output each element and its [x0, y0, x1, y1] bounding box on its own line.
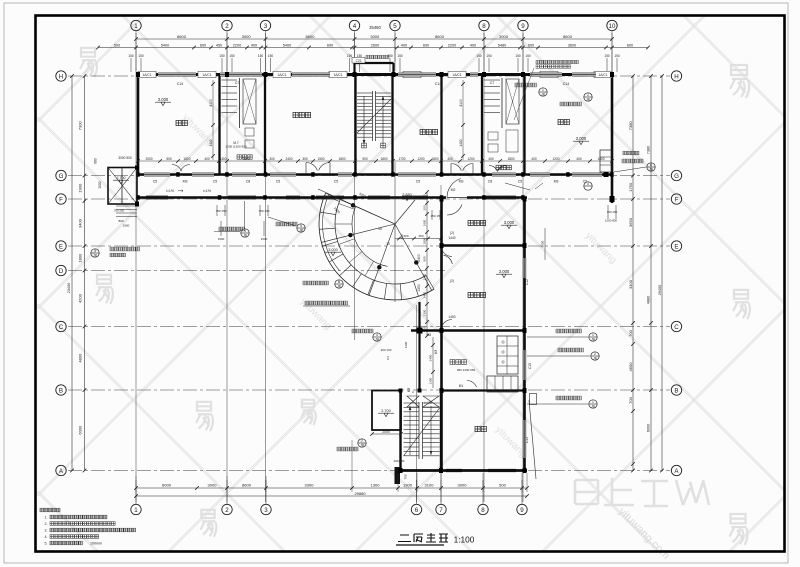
svg-text:4.: 4.: [45, 535, 48, 539]
svg-text:150: 150: [219, 54, 225, 58]
svg-text:J8: J8: [93, 253, 97, 257]
svg-text:H: H: [674, 73, 678, 80]
svg-text:3.000: 3.000: [576, 136, 587, 141]
svg-text:1200 (1200 900: 1200 (1200 900: [225, 145, 246, 149]
svg-text:400: 400: [447, 157, 453, 161]
svg-text:23400: 23400: [67, 283, 71, 294]
svg-text:M2: M2: [451, 188, 456, 192]
svg-text:1: 1: [592, 400, 594, 404]
svg-text:1800: 1800: [380, 157, 387, 161]
svg-text:3.000: 3.000: [328, 248, 338, 252]
svg-text:4200: 4200: [77, 293, 82, 303]
svg-text:1300: 1300: [429, 377, 433, 384]
spiral spokes and dots: [326, 193, 395, 224]
svg-text:150: 150: [515, 54, 521, 58]
windows top wall: [158, 73, 196, 76]
door M2: [447, 179, 461, 198]
axis circles right: [671, 71, 681, 81]
svg-text:29400: 29400: [658, 285, 662, 296]
svg-text:400: 400: [204, 157, 210, 161]
svg-text:1300: 1300: [423, 309, 427, 316]
door M2 top office: [447, 205, 462, 216]
svg-text:2400: 2400: [423, 291, 427, 298]
dim marks right of office: [544, 228, 546, 260]
svg-text:2200: 2200: [233, 43, 241, 47]
svg-text:150: 150: [229, 54, 235, 58]
svg-text:30: 30: [386, 242, 390, 246]
svg-text:2: 2: [587, 93, 589, 97]
svg-text:1440: 1440: [448, 236, 455, 240]
svg-text:1200: 1200: [552, 157, 559, 161]
wall F (corridor south): [137, 196, 446, 199]
svg-text:1400: 1400: [459, 139, 463, 146]
svg-text:1450: 1450: [448, 315, 455, 319]
right side callouts: [589, 333, 597, 341]
svg-text:7300: 7300: [77, 121, 82, 131]
spiral treads: [426, 275, 434, 289]
svg-text:700: 700: [628, 329, 633, 336]
svg-text:29880: 29880: [354, 491, 366, 496]
top stair: [357, 92, 373, 94]
dim chain in stair hall: [426, 192, 428, 336]
room 2 bedroom: [558, 119, 563, 124]
svg-text:3000: 3000: [458, 483, 468, 488]
svg-text:1000: 1000: [123, 224, 130, 228]
svg-text:1200: 1200: [404, 341, 408, 348]
svg-text:2000: 2000: [145, 157, 152, 161]
svg-text:600: 600: [403, 234, 408, 238]
svg-text:8600: 8600: [563, 34, 573, 39]
svg-text:1300: 1300: [371, 483, 381, 488]
svg-text:1A/C1: 1A/C1: [598, 73, 607, 77]
svg-text:8: 8: [482, 23, 486, 30]
double door X marks in corridor: [407, 396, 419, 407]
svg-text:1500: 1500: [218, 237, 225, 241]
svg-text:1200: 1200: [467, 157, 474, 161]
svg-text:3000: 3000: [499, 34, 509, 39]
svg-text:1900: 1900: [77, 183, 82, 193]
svg-text:M3: M3: [407, 388, 411, 393]
landing 2.700 box: [372, 391, 401, 431]
svg-text:1200: 1200: [417, 157, 424, 161]
interior dim row above wall G: [138, 160, 612, 162]
svg-text:4: 4: [587, 182, 589, 186]
vertical stub dims at 2,3 below F: [220, 221, 222, 236]
svg-text:C14: C14: [563, 82, 570, 86]
svg-text:5400: 5400: [161, 43, 169, 47]
svg-text:2000: 2000: [382, 430, 390, 434]
svg-text:9: 9: [520, 507, 524, 514]
svg-text:1A/C1: 1A/C1: [142, 73, 151, 77]
canopy callouts: [244, 201, 246, 229]
svg-text:900: 900: [362, 157, 368, 161]
hall mini dim chain: [395, 238, 441, 240]
svg-text:200x260: 200x260: [394, 459, 405, 463]
svg-text:1800: 1800: [507, 157, 514, 161]
upper wing exterior walls: [138, 73, 612, 76]
svg-text:3000 500: 3000 500: [118, 156, 132, 160]
axis row lines: [68, 75, 670, 77]
svg-text:7380: 7380: [647, 146, 651, 154]
svg-text:C15: C15: [528, 363, 532, 369]
svg-text:300: 300: [269, 157, 275, 161]
svg-text:3100: 3100: [425, 483, 435, 488]
svg-text:3000: 3000: [208, 483, 218, 488]
bottom stair: [404, 402, 420, 404]
svg-text:600: 600: [423, 43, 429, 47]
svg-text:1:100: 1:100: [454, 535, 475, 545]
svg-text:450: 450: [216, 43, 222, 47]
shower stalls: [497, 336, 518, 374]
svg-text:C7: C7: [235, 81, 240, 85]
left dimension chains: [84, 76, 86, 471]
svg-text:400: 400: [488, 157, 494, 161]
svg-text:M3: M3: [554, 180, 559, 184]
svg-text:9: 9: [521, 23, 525, 30]
svg-text:7: 7: [361, 439, 363, 443]
svg-text:i=1%: i=1%: [424, 401, 431, 405]
svg-text:4600: 4600: [628, 362, 633, 372]
svg-text:C7: C7: [490, 81, 495, 85]
svg-text:2.: 2.: [45, 522, 48, 526]
svg-text:1200: 1200: [423, 273, 427, 280]
svg-text:C12: C12: [525, 279, 529, 285]
svg-text:45: 45: [378, 227, 382, 231]
svg-text:1800: 1800: [597, 157, 604, 161]
svg-text:150: 150: [614, 54, 620, 58]
svg-text:C5: C5: [153, 180, 158, 184]
svg-text:750 150: 750 150: [216, 209, 227, 213]
svg-text:8: 8: [481, 507, 485, 514]
watermark logo bottom right: [575, 478, 709, 506]
svg-text:3.000: 3.000: [504, 220, 515, 225]
watermark glyphs: [80, 48, 97, 77]
svg-text:450: 450: [418, 234, 423, 238]
svg-text:J8: J8: [299, 228, 303, 232]
svg-text:C5: C5: [213, 180, 218, 184]
svg-text:1800: 1800: [77, 253, 82, 263]
svg-text:150: 150: [138, 54, 144, 58]
svg-text:3.000: 3.000: [158, 97, 169, 102]
svg-text:700: 700: [628, 396, 633, 403]
axis circles bottom: [131, 504, 141, 514]
column blobs top wall: [136, 72, 140, 77]
notes block bottom left: [40, 508, 44, 512]
svg-text:400: 400: [470, 43, 476, 47]
svg-text:800: 800: [423, 256, 427, 261]
spiral callout: [335, 280, 343, 288]
bottom block walls: [400, 469, 527, 472]
svg-text:J8: J8: [591, 337, 595, 341]
svg-text:35460: 35460: [369, 25, 381, 30]
svg-text:4100: 4100: [209, 99, 213, 107]
svg-text:J8: J8: [541, 92, 545, 96]
svg-text:7380: 7380: [628, 121, 633, 131]
svg-text:500: 500: [166, 157, 172, 161]
svg-text:8600: 8600: [177, 34, 187, 39]
svg-text:5480: 5480: [498, 43, 506, 47]
svg-text:8600: 8600: [306, 34, 316, 39]
svg-text:1700: 1700: [398, 157, 405, 161]
svg-text:600: 600: [528, 43, 534, 47]
axis circles top: [131, 20, 141, 30]
svg-text:3400: 3400: [628, 279, 633, 289]
svg-text:2: 2: [225, 507, 229, 514]
room 1 bedroom: [176, 120, 181, 125]
svg-text:3650: 3650: [628, 217, 633, 227]
svg-text:5: 5: [300, 224, 302, 228]
svg-text:1: 1: [134, 23, 138, 30]
title: second floor plan 1:100: [398, 533, 448, 542]
svg-text:200: 200: [423, 194, 427, 199]
svg-text:M1: M1: [459, 384, 464, 388]
svg-text:(2): (2): [450, 279, 454, 283]
spiral stair arcs: [319, 193, 434, 300]
svg-text:700 200: 700 200: [114, 209, 125, 213]
right dimension chains: [632, 76, 634, 471]
wall G (corridor north): [138, 173, 612, 176]
svg-text:B: B: [59, 387, 63, 394]
svg-text:1750: 1750: [628, 182, 633, 192]
svg-text:1800: 1800: [431, 157, 438, 161]
svg-text:7800: 7800: [242, 157, 249, 161]
svg-text:1A/C1: 1A/C1: [202, 73, 211, 77]
svg-text:1: 1: [592, 333, 594, 337]
svg-text:H: H: [59, 73, 63, 80]
toilet 2 fixtures: [484, 79, 500, 81]
svg-text:100mm: 100mm: [90, 542, 102, 546]
svg-text:G: G: [674, 173, 679, 180]
windows bottom wall: [446, 469, 462, 472]
dim chain left of stair: [432, 337, 434, 388]
svg-text:M3: M3: [434, 350, 438, 355]
svg-text:1A/C1: 1A/C1: [333, 73, 342, 77]
svg-text:F: F: [675, 196, 679, 203]
svg-text:M3: M3: [183, 180, 188, 184]
svg-text:150 150: 150 150: [431, 214, 442, 218]
svg-text:5: 5: [393, 23, 397, 30]
svg-text:1800: 1800: [338, 157, 345, 161]
svg-text:3000: 3000: [370, 34, 380, 39]
door arcs on wall G: [306, 162, 317, 170]
svg-text:C3: C3: [386, 356, 390, 360]
svg-text:150: 150: [525, 54, 531, 58]
svg-text:7: 7: [439, 507, 443, 514]
axis circles left: [56, 71, 66, 81]
right corridor end details: [600, 150, 612, 172]
svg-text:400: 400: [531, 157, 537, 161]
svg-text:150: 150: [258, 54, 264, 58]
svg-text:F: F: [59, 196, 63, 203]
svg-text:1: 1: [134, 507, 138, 514]
svg-text:150: 150: [476, 54, 482, 58]
office room: [468, 220, 473, 225]
svg-text:950 1200 950: 950 1200 950: [457, 368, 476, 372]
bedroom bottom: [475, 426, 480, 431]
svg-text:700: 700: [404, 474, 408, 479]
svg-text:2.880: 2.880: [402, 193, 412, 197]
svg-text:2.700: 2.700: [117, 176, 126, 180]
svg-text:4880: 4880: [647, 296, 651, 304]
svg-text:1600: 1600: [423, 219, 427, 226]
svg-text:3: 3: [264, 507, 268, 514]
svg-text:C8: C8: [246, 180, 251, 184]
svg-text:2400: 2400: [429, 354, 433, 361]
svg-text:2000: 2000: [98, 181, 102, 188]
svg-text:1500: 1500: [317, 157, 324, 161]
svg-text:1.: 1.: [45, 516, 48, 520]
svg-text:8600: 8600: [435, 34, 445, 39]
note text top center-right: [536, 60, 539, 63]
svg-text:6000: 6000: [162, 483, 172, 488]
svg-text:10: 10: [609, 23, 616, 30]
svg-text:C8: C8: [488, 180, 493, 184]
bottom dimension chains: [136, 487, 527, 489]
svg-text:E: E: [674, 243, 678, 250]
svg-text:M3: M3: [459, 180, 464, 184]
svg-text:4: 4: [353, 23, 357, 30]
svg-text:150: 150: [604, 54, 610, 58]
windows wall F: [146, 196, 168, 199]
svg-text:2400: 2400: [417, 254, 421, 262]
svg-text:2: 2: [225, 23, 229, 30]
svg-text:6000: 6000: [647, 424, 651, 432]
svg-text:400: 400: [576, 157, 582, 161]
svg-text:3600: 3600: [568, 43, 576, 47]
svg-text:5400: 5400: [283, 43, 291, 47]
svg-text:C5: C5: [334, 180, 339, 184]
svg-text:1500: 1500: [261, 237, 268, 241]
svg-text:C14: C14: [177, 82, 184, 86]
svg-text:6: 6: [650, 163, 652, 167]
svg-text:3.000: 3.000: [499, 269, 510, 274]
svg-text:500: 500: [114, 43, 120, 47]
svg-text:i=1%: i=1%: [203, 189, 211, 193]
svg-text:J8: J8: [593, 356, 597, 360]
svg-text:800: 800: [118, 219, 123, 223]
svg-text:2: 2: [594, 352, 596, 356]
svg-text:150 150: 150 150: [607, 210, 618, 214]
svg-text:B: B: [674, 387, 678, 394]
svg-text:2600: 2600: [371, 43, 379, 47]
svg-text:150: 150: [486, 54, 492, 58]
svg-text:1: 1: [542, 88, 544, 92]
window tags on top wall: [138, 71, 156, 77]
svg-text:2200: 2200: [448, 43, 456, 47]
svg-text:150: 150: [347, 54, 353, 58]
small texts right of wing: [623, 151, 627, 155]
windows right wall office wing: [523, 258, 526, 278]
svg-text:G: G: [59, 173, 64, 180]
svg-text:1400: 1400: [209, 139, 213, 146]
activity room 3: [468, 292, 473, 297]
svg-text:C23: C23: [356, 59, 362, 63]
svg-text:3400: 3400: [77, 218, 82, 228]
interior walls upper wing: [218, 76, 220, 174]
callout left of landing: [358, 439, 366, 447]
svg-text:1000 800: 1000 800: [605, 219, 617, 223]
svg-text:8600: 8600: [242, 483, 252, 488]
toilet 1 fixtures: [222, 79, 238, 81]
windows wall G: [144, 173, 170, 176]
room activity 1: [293, 112, 298, 117]
svg-text:J8: J8: [591, 404, 595, 408]
svg-text:M3: M3: [427, 333, 432, 337]
canopy tick marks below wall F: [431, 210, 433, 220]
doors in office wing: [442, 249, 452, 256]
stair tower bump: [355, 62, 394, 64]
left porch: [108, 168, 137, 205]
room activity 2: [420, 129, 425, 134]
svg-text:3000: 3000: [242, 34, 252, 39]
svg-text:J8: J8: [337, 284, 341, 288]
svg-text:150: 150: [387, 54, 393, 58]
svg-text:6000: 6000: [77, 425, 82, 435]
svg-text:400: 400: [401, 43, 407, 47]
svg-text:D: D: [59, 268, 64, 275]
svg-text:C14: C14: [435, 82, 442, 86]
svg-text:4800: 4800: [77, 353, 82, 363]
svg-text:C: C: [674, 324, 679, 331]
svg-text:1900: 1900: [403, 483, 413, 488]
svg-text:6: 6: [415, 507, 419, 514]
cloak room: [450, 360, 455, 365]
svg-text:300: 300: [423, 205, 427, 210]
svg-text:4: 4: [376, 333, 378, 337]
svg-text:C5: C5: [518, 180, 523, 184]
svg-text:E: E: [59, 243, 63, 250]
svg-text:J8: J8: [375, 337, 379, 341]
watermark lattice: [36, 491, 96, 551]
svg-text:150: 150: [397, 54, 403, 58]
svg-text:150: 150: [128, 54, 134, 58]
svg-text:2400: 2400: [285, 157, 292, 161]
svg-text:C: C: [59, 324, 64, 331]
bottom extension lines: [351, 440, 353, 492]
svg-text:J8: J8: [649, 167, 653, 171]
axis column lines: [135, 33, 137, 502]
svg-text:J8: J8: [243, 233, 247, 237]
svg-text:1800: 1800: [183, 157, 190, 161]
svg-text:1350: 1350: [417, 284, 421, 292]
svg-text:i=1%: i=1%: [166, 189, 174, 193]
office wing walls: [440, 199, 443, 472]
svg-text:1A/C1: 1A/C1: [452, 73, 461, 77]
svg-text:150: 150: [268, 54, 274, 58]
svg-text:1300: 1300: [219, 157, 226, 161]
svg-text:3300: 3300: [305, 483, 315, 488]
column blobs wall G: [136, 172, 140, 177]
svg-text:400: 400: [251, 43, 257, 47]
ticks below wall F: [216, 205, 218, 216]
svg-text:600: 600: [327, 43, 333, 47]
svg-text:200 100: 200 100: [381, 348, 392, 352]
svg-text:1A/C1: 1A/C1: [277, 73, 286, 77]
svg-text:J8: J8: [586, 97, 590, 101]
svg-text:4100: 4100: [459, 99, 463, 107]
svg-text:C5: C5: [276, 180, 281, 184]
svg-text:600: 600: [200, 43, 206, 47]
svg-text:J8: J8: [360, 443, 364, 447]
svg-text:3.: 3.: [45, 529, 48, 533]
callouts top right: [539, 88, 547, 96]
svg-text:5.: 5.: [45, 542, 48, 546]
svg-text:600: 600: [627, 43, 633, 47]
svg-text:C5: C5: [416, 180, 421, 184]
svg-text:750 150: 750 150: [259, 209, 270, 213]
wall F column blobs: [136, 195, 140, 200]
svg-text:5000: 5000: [541, 240, 545, 247]
